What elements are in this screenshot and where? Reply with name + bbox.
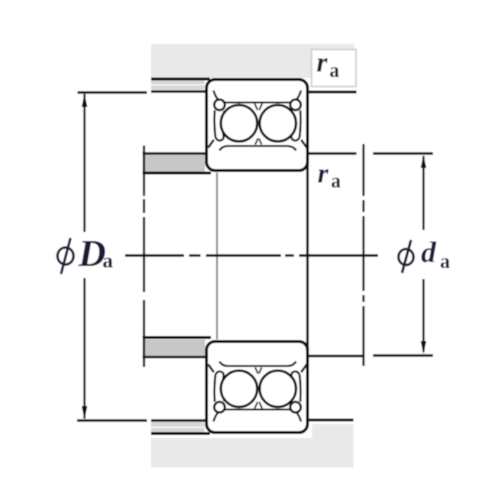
dimension da arrow top — [421, 155, 427, 168]
spacer strip bottom-left upper line — [143, 336, 212, 339]
shaft shoulder line bottom-right — [309, 355, 364, 358]
dimension Da line — [83, 94, 85, 419]
housing bore line top-left — [151, 78, 210, 81]
outer ring outline — [207, 80, 308, 171]
dimension da extension line bottom — [373, 354, 433, 356]
dimension da arrow bottom — [421, 341, 427, 354]
svg-text:r: r — [318, 159, 330, 190]
housing bore line bottom-left — [151, 432, 210, 435]
spacer strip bottom-left lower line — [143, 356, 209, 359]
bearing (bottom section, mirrored) — [207, 342, 308, 433]
spacer strip top-left lower line — [143, 172, 212, 175]
ball right — [260, 105, 296, 141]
cage pinch bottom between balls — [255, 139, 261, 145]
svg-text:a: a — [331, 172, 341, 193]
dimension Da extension line bottom — [77, 419, 147, 421]
phi da label — [399, 236, 451, 273]
seal left body — [214, 110, 224, 140]
spacer strip top-left fill — [143, 155, 206, 172]
dimension da line — [422, 156, 424, 352]
ball left — [221, 105, 257, 141]
shaft shoulder line top-right — [307, 152, 357, 155]
housing bore line top-right — [305, 91, 357, 94]
phi Da label — [58, 233, 114, 275]
housing block bottom — [151, 424, 354, 468]
svg-text:d: d — [421, 236, 437, 269]
inner ring top line — [220, 146, 297, 151]
outer ring bore line — [214, 91, 302, 103]
housing shoulder line bottom-left — [151, 419, 207, 422]
shaft end face line (gray) — [216, 173, 218, 340]
svg-text:a: a — [440, 251, 450, 273]
shaft break line left — [143, 146, 145, 368]
shaft shoulder face line — [306, 154, 309, 356]
bearing (top section) — [207, 80, 308, 171]
svg-text:r: r — [317, 48, 329, 79]
housing bore line bottom-right — [309, 419, 354, 422]
dimension da extension line top — [373, 152, 433, 154]
seal left hook — [214, 100, 225, 111]
housing block top — [151, 44, 354, 78]
seal right body — [291, 110, 301, 140]
dimension Da arrow bottom — [82, 406, 88, 420]
seal left lip — [208, 140, 214, 148]
spacer strip bottom-left fill — [143, 340, 206, 356]
dimension Da arrow top — [82, 94, 88, 108]
ra label box top-right — [312, 50, 357, 87]
cage pinch top between balls — [255, 104, 263, 111]
housing shoulder line top-left — [151, 90, 207, 93]
shaft break line right — [362, 144, 364, 366]
spacer strip top-left upper line — [143, 152, 209, 155]
seal right hook — [290, 100, 301, 111]
housing shoulder strip bottom-left — [151, 422, 205, 432]
housing shoulder strip top-left — [151, 81, 205, 90]
centerline — [125, 254, 378, 256]
seal right lip — [301, 140, 307, 148]
dimension Da extension line top — [78, 91, 148, 93]
svg-text:a: a — [330, 61, 340, 82]
svg-text:a: a — [103, 249, 114, 273]
